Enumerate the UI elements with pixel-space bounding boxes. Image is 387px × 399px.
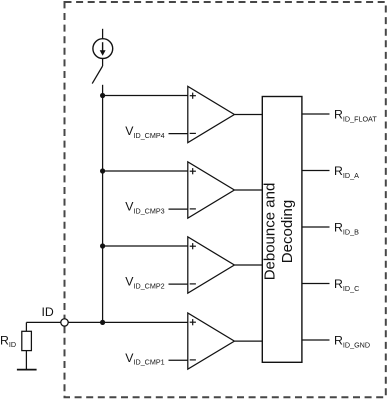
wire: VID_CMP1 stub: [169, 359, 189, 361]
svg-text:Debounce and: Debounce and: [262, 183, 279, 281]
wire: bus to CMP3 + input: [103, 170, 188, 172]
comparator CMP3: [188, 162, 235, 218]
wire: VID_CMP2 stub: [169, 283, 189, 285]
wire: ID node to CMP1 + input: [26, 321, 188, 323]
wire: bus to CMP2 + input: [103, 245, 188, 247]
comparator CMP4: [188, 86, 235, 142]
node junction dot (CMP3): [100, 168, 105, 173]
switch S1: [102, 59, 104, 67]
wire: CMP1 output: [235, 340, 263, 342]
node junction dot (CMP2): [100, 243, 105, 248]
wire: RID_GND stub: [302, 339, 330, 341]
wire: VID_CMP3 stub: [169, 208, 189, 210]
label Debounce and Decoding: [262, 183, 296, 281]
wire: CMP2 output: [235, 264, 263, 266]
wire: RID_FLOAT stub: [302, 113, 330, 115]
wire: vertical bus: [102, 96, 104, 323]
node junction dot (CMP1 / ID): [100, 320, 105, 325]
node ID terminal (open circle on boundary): [61, 319, 68, 326]
wire: RID_A stub: [302, 170, 330, 172]
wire: bus to CMP4 + input: [103, 95, 188, 97]
wire: current source top lead: [102, 29, 104, 39]
resistor RID: [25, 322, 27, 331]
comparator CMP2: [188, 237, 235, 293]
wire: CMP3 output: [235, 189, 263, 191]
svg-text:Decoding: Decoding: [279, 200, 296, 263]
wire: RID_B stub: [302, 226, 330, 228]
node junction dot (CMP4): [100, 93, 105, 98]
svg-text:ID: ID: [42, 305, 54, 319]
wire: RID_C stub: [302, 283, 330, 285]
ground: [17, 369, 37, 371]
block U1 Debounce and Decoding: [262, 97, 302, 363]
wire: VID_CMP4 stub: [169, 133, 189, 135]
current source I1: [93, 39, 113, 59]
comparator CMP1: [188, 313, 235, 369]
wire: CMP4 output: [235, 114, 263, 116]
